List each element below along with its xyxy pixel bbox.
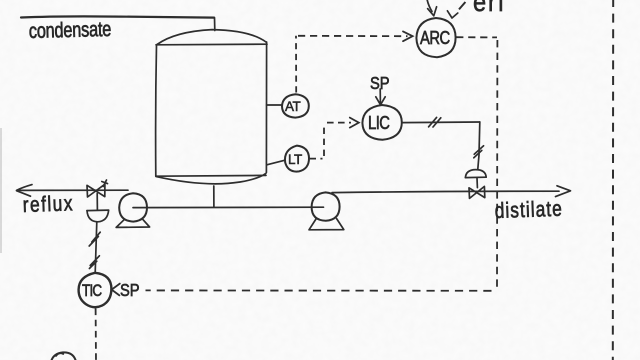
svg-text:erf: erf [473, 0, 506, 17]
svg-text:LIC: LIC [368, 113, 390, 134]
svg-text:distilate: distilate [494, 197, 563, 224]
svg-text:AT: AT [285, 99, 301, 114]
svg-text:condensate: condensate [29, 17, 112, 43]
svg-text:SP: SP [120, 281, 140, 300]
svg-text:TIC: TIC [82, 283, 102, 300]
svg-text:LT: LT [288, 152, 302, 167]
svg-text:ARC: ARC [420, 28, 450, 49]
svg-text:SP: SP [370, 74, 390, 93]
svg-text:reflux: reflux [22, 192, 74, 218]
